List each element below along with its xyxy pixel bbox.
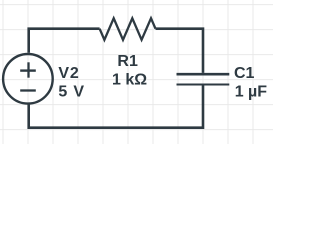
minus sign <box>20 89 36 91</box>
capacitor C1 bottom plate <box>177 83 230 85</box>
wire: source top to top-left corner to resistor <box>29 29 100 53</box>
svg-text:1 kΩ: 1 kΩ <box>112 72 147 89</box>
plus sign <box>20 69 36 71</box>
svg-text:V2: V2 <box>58 65 79 82</box>
svg-text:C1: C1 <box>234 65 255 82</box>
resistor R1 zigzag <box>100 18 156 40</box>
svg-text:5 V: 5 V <box>58 84 84 101</box>
wire: capacitor to bottom-right corner, bottom wire, up to source bottom <box>29 85 203 127</box>
capacitor C1 top plate <box>177 73 230 76</box>
svg-text:1 µF: 1 µF <box>235 83 268 100</box>
wire: resistor to top-right corner down to capacitor <box>156 29 204 73</box>
voltage source V2 circle <box>3 54 53 104</box>
svg-text:R1: R1 <box>117 53 138 70</box>
